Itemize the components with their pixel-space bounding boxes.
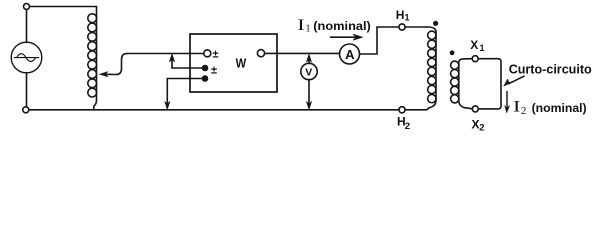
label X1 — [470, 38, 484, 53]
svg-text:(nominal): (nominal) — [532, 101, 587, 115]
label H2 — [397, 115, 410, 132]
label I2 (nominal) — [513, 99, 587, 117]
terminal X2 — [472, 106, 478, 112]
polarity dot primary — [433, 21, 438, 26]
svg-text:1: 1 — [405, 13, 410, 23]
transformer primary winding — [405, 27, 436, 110]
wattmeter bottom terminal — [203, 76, 208, 81]
wattmeter U1 box — [190, 34, 277, 92]
wattmeter middle terminal — [203, 66, 208, 71]
svg-text:2: 2 — [405, 121, 410, 132]
wire right terminal out of box — [265, 52, 340, 54]
wire tap to wattmeter terminal — [127, 53, 204, 55]
short circuit wire X1 to X2 — [478, 59, 501, 109]
wire left branch terminal to AC source — [26, 10, 28, 43]
jumper wire main line to middle terminal — [169, 54, 202, 68]
wire ammeter to H1 — [360, 27, 400, 54]
callout arrow curto-circuito — [504, 76, 524, 86]
svg-text:H: H — [396, 8, 405, 22]
polarity dot secondary — [450, 50, 455, 55]
svg-text:1: 1 — [480, 43, 485, 53]
ammeter A1 — [340, 44, 360, 64]
variac tap wiper arrow — [100, 54, 127, 77]
label X2 — [472, 117, 485, 133]
terminal X1 — [472, 56, 478, 62]
wire AC source to bottom terminal — [26, 73, 28, 107]
svg-text:1: 1 — [306, 23, 311, 34]
current arrow I2 — [505, 92, 510, 114]
svg-text:2: 2 — [479, 122, 484, 133]
jumper wire bottom terminal to bottom rail — [165, 79, 203, 110]
svg-text:V: V — [305, 66, 312, 78]
transformer secondary winding — [451, 59, 473, 109]
svg-text:I: I — [513, 99, 520, 116]
svg-text:(nominal): (nominal) — [313, 19, 371, 33]
wire top rail from source terminal to variac top — [30, 6, 97, 8]
svg-text:±: ± — [213, 49, 219, 61]
wattmeter right terminal — [257, 50, 264, 57]
label I1 (nominal) — [297, 17, 371, 34]
svg-text:I: I — [297, 17, 304, 34]
voltmeter V1 branch wire with arrows — [306, 54, 311, 109]
variac T1 coil — [88, 7, 97, 110]
AC source G1 — [11, 42, 42, 73]
svg-text:X: X — [470, 38, 478, 52]
terminal H1 — [399, 24, 405, 30]
terminal top-left — [24, 4, 30, 10]
label H1 — [396, 8, 410, 23]
voltmeter V1 — [301, 63, 317, 79]
wire bottom rail to H2 — [29, 109, 399, 111]
svg-text:W: W — [236, 55, 247, 70]
current arrow I1 — [331, 34, 363, 40]
svg-text:±: ± — [211, 65, 217, 77]
svg-text:2: 2 — [521, 105, 527, 117]
wattmeter left voltage terminal — [204, 50, 211, 57]
terminal bottom-left — [23, 107, 29, 113]
terminal H2 — [399, 107, 405, 113]
svg-text:Curto-circuito: Curto-circuito — [509, 62, 592, 77]
svg-text:A: A — [345, 47, 355, 62]
